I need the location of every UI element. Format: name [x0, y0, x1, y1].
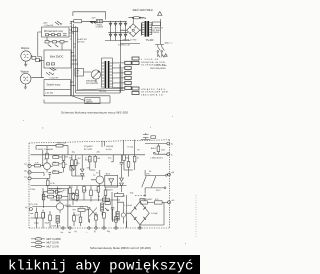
svg-text:GNIAZDA GŁOŚN.: GNIAZDA GŁOŚN.: [141, 61, 166, 64]
svg-text:B 2A: B 2A: [142, 17, 147, 20]
svg-text:+ 40V: + 40V: [91, 17, 97, 19]
svg-text:P.K.: P.K.: [147, 173, 151, 175]
svg-text:MŁT 2,0 W: MŁT 2,0 W: [47, 245, 60, 248]
svg-text:Ł 200Ω 4Ω: Ł 200Ω 4Ω: [141, 59, 159, 61]
svg-text:R 3k: R 3k: [51, 183, 55, 185]
svg-text:A00.3: A00.3: [151, 147, 157, 150]
svg-text:22k: 22k: [97, 151, 100, 153]
svg-text:4×BZP611 C1N: 4×BZP611 C1N: [118, 44, 131, 47]
svg-text:TW-200: TW-200: [99, 91, 108, 93]
svg-text:22k: 22k: [69, 158, 72, 160]
svg-text:TS-160: TS-160: [146, 39, 155, 42]
svg-text:Ł1 0,22: Ł1 0,22: [73, 214, 81, 216]
svg-text:ZASILANIA 4Ω: ZASILANIA 4Ω: [141, 93, 163, 96]
svg-text:kliknij aby powiększyć: kliknij aby powiększyć: [8, 259, 193, 274]
svg-text:1×10μF: 1×10μF: [151, 212, 159, 215]
svg-text:z 1N4148 (4×): z 1N4148 (4×): [150, 157, 163, 160]
svg-text:(d): (d): [25, 207, 28, 209]
svg-text:10μ: 10μ: [72, 151, 75, 153]
svg-text:GŁOŚNIKOWE ZEW.: GŁOŚNIKOWE ZEW.: [141, 91, 169, 94]
svg-text:(e): (e): [75, 231, 78, 233]
svg-text:1,2k: 1,2k: [69, 186, 73, 188]
svg-text:4,7k: 4,7k: [80, 207, 84, 209]
svg-text:MŁT 0,125W: MŁT 0,125W: [47, 238, 62, 241]
svg-text:WSKAŹNIK: WSKAŹNIK: [86, 80, 97, 83]
svg-text:ZABEZP.: ZABEZP.: [86, 101, 93, 104]
svg-text:Wyjście: Wyjście: [21, 71, 30, 74]
svg-text:a 4Ω 16Ω: a 4Ω 16Ω: [45, 93, 54, 95]
svg-text:WYSTEROW.: WYSTEROW.: [86, 83, 99, 85]
svg-text:47k: 47k: [87, 167, 90, 169]
svg-text:BC 547B: BC 547B: [84, 149, 93, 151]
svg-text:10Ω: 10Ω: [130, 193, 134, 195]
svg-text:Stopień mocy: Stopień mocy: [47, 83, 62, 86]
svg-text:(f): (f): [94, 231, 96, 233]
svg-text:+(4): +(4): [171, 172, 175, 174]
svg-text:47μF: 47μF: [45, 223, 50, 225]
svg-text:Wy: Wy: [107, 231, 110, 233]
svg-text:1,5k: 1,5k: [53, 155, 57, 157]
svg-text:Gn: Gn: [61, 232, 64, 234]
svg-text:1k: 1k: [65, 164, 67, 166]
svg-text:4,7kΩ/5W: 4,7kΩ/5W: [96, 27, 104, 29]
svg-text:Blok ZMOC: Blok ZMOC: [50, 54, 64, 58]
svg-text:220: 220: [76, 73, 79, 75]
svg-text:5,6k: 5,6k: [126, 158, 130, 160]
svg-text:GŁOŚNIKOWE 8Ω: GŁOŚNIKOWE 8Ω: [141, 64, 166, 67]
svg-text:⊥: ⊥: [86, 231, 88, 234]
svg-text:R119 1,5k: R119 1,5k: [57, 143, 66, 145]
svg-text:Schemat blokowy wzmacniacza mo: Schemat blokowy wzmacniacza mocy WS-200: [61, 111, 128, 115]
svg-text:SIECIOWĄ ZEWN.: SIECIOWĄ ZEWN.: [150, 67, 167, 70]
svg-text:Ł(Tr) 1,5k: Ł(Tr) 1,5k: [29, 204, 38, 206]
svg-text:BC211: BC211: [85, 160, 92, 162]
svg-text:56k: 56k: [65, 157, 68, 159]
svg-text:22Ω: 22Ω: [83, 190, 87, 192]
svg-text:BD241: BD241: [107, 189, 114, 191]
svg-text:2,2k: 2,2k: [103, 197, 107, 199]
svg-text:100μ: 100μ: [34, 223, 39, 225]
svg-text:Wzmacniacz mocy: Wzmacniacz mocy: [44, 31, 64, 33]
svg-text:t.Obw NF: t.Obw NF: [50, 77, 60, 80]
svg-text:4×47μ: 4×47μ: [106, 148, 112, 151]
svg-text:0,5W 4,7k: 0,5W 4,7k: [52, 226, 61, 228]
svg-text:PIERW.: PIERW.: [152, 32, 159, 34]
svg-text:z 1,0mH: z 1,0mH: [124, 205, 132, 207]
svg-text:1,5kΩ/T 2,5mA-8Ω: 1,5kΩ/T 2,5mA-8Ω: [36, 148, 53, 151]
svg-text:R120 1N4148: R120 1N4148: [49, 189, 62, 191]
svg-text:400μs ~=: 400μs ~=: [165, 43, 174, 45]
svg-text:Gd: Gd: [68, 232, 71, 234]
svg-text:GNIAZDO ZASIL.: GNIAZDO ZASIL.: [141, 88, 167, 91]
svg-text:10Ω: 10Ω: [161, 149, 165, 151]
svg-text:10k: 10k: [53, 162, 56, 164]
svg-text:Wejście: Wejście: [21, 47, 30, 50]
svg-text:(c): (c): [24, 176, 27, 178]
svg-text:R 56k: R 56k: [30, 189, 35, 191]
svg-text:1k: 1k: [137, 158, 139, 160]
svg-text:+40V: +40V: [43, 22, 49, 24]
svg-text:(b): (b): [24, 170, 27, 172]
svg-text:47μ: 47μ: [108, 158, 111, 160]
svg-text:Schemat ideowy bloku ZMOC wzm.: Schemat ideowy bloku ZMOC wzm.II (W-200): [90, 246, 151, 250]
svg-text:Ts: Ts: [171, 154, 173, 156]
svg-text:(a): (a): [24, 164, 27, 166]
svg-text:C1N 54/5: C1N 54/5: [77, 42, 85, 44]
svg-text:MŁT 0,5 W: MŁT 0,5 W: [47, 242, 60, 245]
svg-text:R 1,2k: R 1,2k: [128, 147, 134, 149]
svg-text:4,7k: 4,7k: [35, 163, 39, 165]
svg-text:A WYPR. DO THD: A WYPR. DO THD: [123, 38, 138, 41]
svg-text:Ł.Ro 1N4007: Ł.Ro 1N4007: [141, 199, 154, 201]
svg-text:AD 162: AD 162: [65, 204, 73, 207]
